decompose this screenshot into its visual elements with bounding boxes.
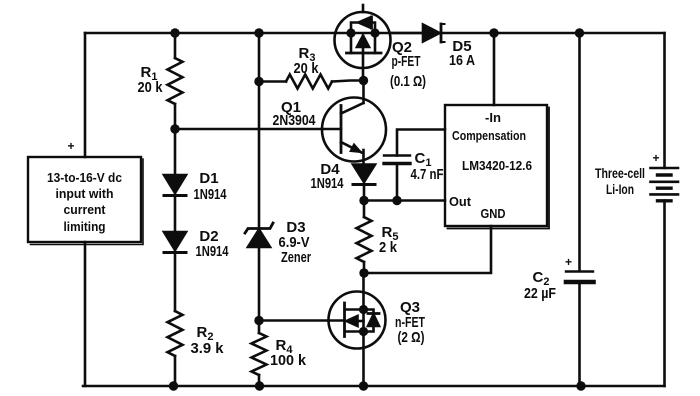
node junction at 581,386 (576, 381, 585, 390)
svg-text:20 k: 20 k (138, 79, 164, 96)
node junction at 259,81.5 (254, 77, 263, 86)
wire: D2 to R2 (174, 252, 177, 311)
node junction at 363.5,80.5 (359, 76, 368, 85)
svg-text:GND: GND (481, 206, 506, 221)
svg-text:(2 Ω): (2 Ω) (398, 329, 425, 346)
svg-text:20 k: 20 k (294, 60, 320, 77)
node junction at 259.5,386 (255, 381, 264, 390)
svg-text:Zener: Zener (281, 249, 311, 266)
wire: top supply rail (85, 32, 665, 35)
node junction at 579.5,33 (575, 28, 584, 37)
node junction at 259,320.5 (254, 316, 263, 325)
wire: GND pin of U1 down and left to R5/Q3 node (364, 226, 491, 273)
node junction at 175,33 (170, 28, 179, 37)
node junction at 364,273 (359, 268, 368, 277)
svg-text:+: + (67, 139, 74, 153)
svg-text:LM3420-12.6: LM3420-12.6 (462, 158, 532, 173)
svg-text:Three-cell: Three-cell (595, 166, 645, 181)
wire: bottom ground rail (83, 385, 665, 388)
diode D2 (164, 232, 186, 250)
battery B1 Three-cell Li-Ion (651, 167, 679, 170)
wire: battery - down to bottom rail (663, 201, 666, 387)
svg-text:22 µF: 22 µF (524, 285, 556, 302)
capacitor C2 (578, 33, 581, 271)
wire: node R1/D1 to Q1 base (175, 128, 341, 131)
wire: top rail to zener D3 (258, 33, 261, 227)
input source box (28, 157, 141, 242)
svg-text:1N914: 1N914 (194, 186, 227, 203)
wire: Out pin of U1 to D4/R5 node (364, 199, 445, 202)
svg-text:1N914: 1N914 (196, 243, 229, 260)
svg-text:2 k: 2 k (379, 239, 398, 256)
svg-text:Out: Out (449, 194, 472, 209)
node junction at 494,33 (489, 28, 498, 37)
svg-text:Li-Ion: Li-Ion (606, 182, 634, 197)
svg-text:limiting: limiting (64, 219, 106, 234)
wire: D3/R4 node to Q3 gate (259, 319, 345, 322)
svg-text:input with: input with (56, 186, 114, 201)
transistor Q3 n-FET (329, 292, 386, 349)
capacitor C1 (396, 164, 399, 201)
resistor R1 (174, 33, 177, 58)
wire: right rail corner down to battery + (663, 33, 666, 168)
wire: compensation pin to C1 (397, 130, 445, 156)
op-amp / regulator U1 LM3420 box (445, 105, 547, 226)
diode D5 (390, 32, 423, 35)
svg-text:1N914: 1N914 (311, 175, 344, 192)
transistor Q2 p-FET (335, 12, 391, 68)
resistor R3 (259, 80, 286, 83)
transistor Q1 2N3904 (322, 98, 386, 162)
wire: D1 to D2 (174, 195, 177, 232)
svg-text:3.9 k: 3.9 k (191, 340, 225, 357)
wire: left rail bottom (input box to ground rail) (84, 242, 87, 386)
node junction at 175,129 (170, 124, 179, 133)
svg-text:-In: -In (485, 110, 501, 125)
wire: left rail top (supply to input box) (84, 33, 87, 157)
node junction at 173.5,386 (169, 381, 178, 390)
svg-text:16 A: 16 A (449, 52, 475, 69)
svg-text:Compensation: Compensation (452, 129, 526, 143)
svg-text:+: + (565, 255, 572, 269)
svg-text:4.7 nF: 4.7 nF (411, 166, 444, 183)
svg-text:100 k: 100 k (270, 352, 307, 369)
svg-text:(0.1 Ω): (0.1 Ω) (390, 73, 426, 90)
diode D1 (174, 129, 177, 175)
svg-text:2N3904: 2N3904 (273, 112, 317, 129)
svg-text:D1: D1 (199, 170, 218, 187)
svg-text:p-FET: p-FET (392, 53, 421, 70)
node junction at 259,33 (254, 28, 263, 37)
resistor R5 (357, 217, 372, 262)
wire: D3 to node R4 (258, 247, 261, 321)
diode D4 (353, 165, 375, 183)
node junction at 397,200.5 (392, 196, 401, 205)
resistor R4 (252, 333, 267, 375)
resistor R2 (168, 311, 183, 356)
svg-text:13-to-16-V dc: 13-to-16-V dc (47, 170, 122, 185)
node: Q2 gate / R3 / Q1 collector (362, 81, 365, 104)
node junction at 363.5,386 (359, 381, 368, 390)
wire: top rail to U1 In pin (493, 33, 496, 105)
node junction at 364,200.5 (359, 196, 368, 205)
zener diode D3 (245, 223, 273, 233)
svg-text:current: current (64, 202, 107, 217)
svg-text:+: + (652, 151, 659, 165)
